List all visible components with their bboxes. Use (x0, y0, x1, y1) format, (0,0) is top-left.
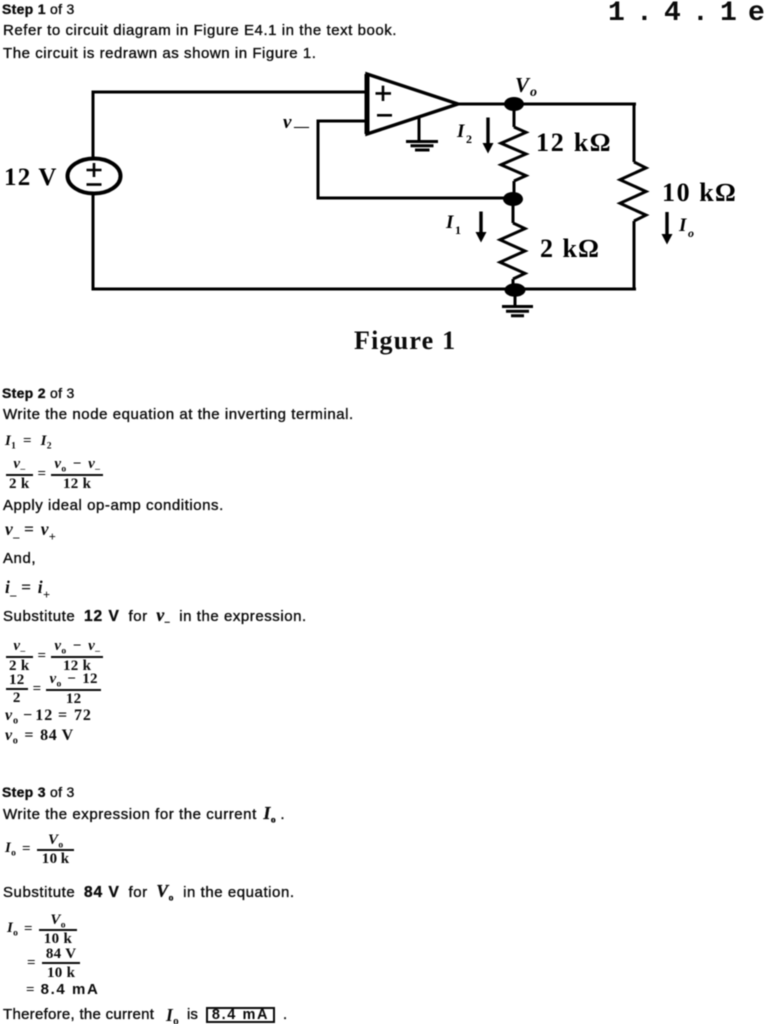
equation Io = Vo/10k (5, 834, 74, 865)
resistor 10 kOhm zigzag (620, 162, 646, 221)
voltage source V1 12V (68, 159, 121, 194)
circuit schematic SVG (0, 0, 768, 330)
wire: inverting input stub (318, 120, 367, 123)
label I1 (445, 212, 461, 237)
ground at bottom node (502, 295, 533, 316)
svg-text:V: V (515, 73, 531, 97)
svg-text:o: o (530, 85, 537, 100)
wire: right branch vertical top (633, 103, 636, 163)
label Io (678, 215, 694, 240)
figure caption (354, 326, 456, 356)
equation vo = 84 V (5, 727, 74, 747)
resistor 2 kOhm zigzag (500, 223, 525, 279)
equation i- = i+ (5, 577, 50, 603)
svg-text:10 kΩ: 10 kΩ (662, 178, 737, 207)
node middle (junction dot) (503, 192, 523, 206)
node bottom (junction dot) (505, 283, 526, 297)
equation Io = Vo/10k (block 2) (7, 914, 77, 945)
final answer line (3, 1006, 154, 1023)
label 2 kOhm (540, 234, 600, 263)
label 12 kOhm (536, 128, 612, 157)
equation = 84V/10k (21, 948, 80, 979)
current arrow Io (662, 212, 673, 245)
node Vo (junction dot) (504, 97, 524, 111)
svg-text:—: — (293, 119, 310, 135)
equation v- = v+ (5, 519, 56, 545)
wire: 12k to middle node (513, 181, 516, 195)
svg-text:12 V: 12 V (4, 164, 58, 191)
wire: Vo node to right branch (522, 103, 636, 106)
label 10 kOhm (662, 178, 737, 207)
header id 1.4.1e (608, 0, 768, 29)
step 3 text line 1 (3, 803, 285, 826)
op-amp U1 (367, 74, 458, 134)
svg-text:I: I (456, 121, 465, 142)
step 2 text line 1 (3, 406, 354, 423)
step 3 heading (2, 784, 75, 800)
svg-text:I: I (678, 215, 687, 236)
svg-text:2: 2 (466, 132, 472, 146)
wire: feedback vertical from v- node (317, 120, 320, 200)
current arrow I2 (483, 118, 494, 154)
label v- (283, 112, 310, 135)
wire: top from source to op-amp + input (93, 91, 367, 94)
svg-text:12 kΩ: 12 kΩ (536, 128, 612, 157)
step 1 heading (2, 1, 75, 17)
step 2 text line 2 (3, 497, 224, 514)
svg-text:2 kΩ: 2 kΩ (540, 234, 600, 263)
wire: 2k to bottom node (512, 279, 515, 285)
label I2 (456, 121, 472, 146)
wire: right branch vertical bottom (633, 221, 636, 291)
resistor 12 kOhm zigzag (501, 127, 526, 181)
wire: left vertical below source (92, 194, 95, 291)
step 1 text line 2 (3, 45, 316, 62)
wire: left vertical above source (92, 91, 95, 160)
step 3 text line 2 (3, 881, 295, 904)
svg-text:o: o (688, 226, 694, 240)
wire: Vo node down to 12k (513, 108, 516, 127)
svg-text:v: v (283, 112, 292, 133)
equation I1 = I2 (5, 433, 52, 452)
equation = 8.4 mA (26, 981, 99, 999)
ground below op-amp (406, 117, 438, 151)
wire: middle node down to 2k (512, 203, 515, 223)
wire: op-amp output to Vo node (458, 103, 506, 106)
label 12 V (4, 164, 58, 191)
step 2 heading (2, 385, 75, 401)
svg-text:1: 1 (455, 223, 461, 237)
label Vo (515, 73, 537, 100)
current arrow I1 (476, 212, 487, 243)
equation 12/2 = (vo-12)/12 (6, 674, 101, 704)
text And, (3, 550, 36, 567)
step 1 text line 1 (3, 22, 397, 39)
equation v-/2k = (vo - v-)/12k (6, 459, 103, 489)
boxed answer 8.4 mA (206, 1007, 275, 1023)
step 2 text line 3 (3, 605, 307, 628)
equation vo - 12 = 72 (5, 707, 92, 727)
svg-text:I: I (445, 212, 454, 233)
wire: bottom rail (93, 288, 636, 291)
wire: feedback horizontal to middle node (318, 197, 512, 200)
equation block: v-/2k = (vo-v-)/12k (6, 641, 103, 671)
